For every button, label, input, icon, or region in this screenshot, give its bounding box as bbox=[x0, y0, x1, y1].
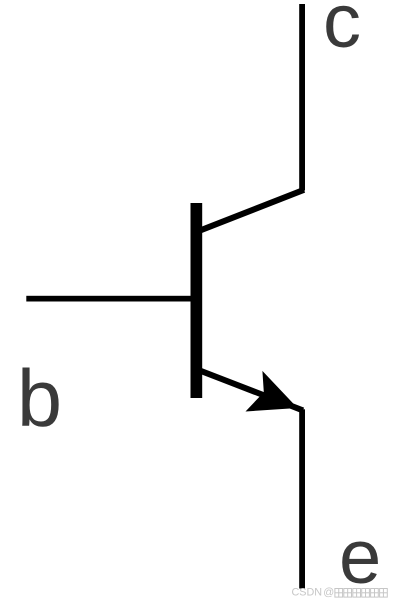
node label c (collector) bbox=[323, 0, 361, 60]
wire emitter diagonal bbox=[201, 371, 304, 411]
wire collector diagonal bbox=[201, 190, 305, 231]
watermark CJK glyph blocks bbox=[335, 589, 387, 598]
node label e (emitter) bbox=[339, 520, 381, 596]
base bar bbox=[191, 203, 203, 398]
svg-text:@: @ bbox=[323, 586, 334, 598]
svg-text:CSDN: CSDN bbox=[292, 586, 323, 598]
wire emitter vertical bbox=[299, 409, 305, 588]
node label b (base) bbox=[17, 359, 62, 440]
wire collector vertical bbox=[299, 4, 305, 191]
wire base horizontal bbox=[26, 296, 202, 302]
emitter arrowhead bbox=[246, 371, 298, 412]
watermark CSDN bbox=[292, 586, 335, 598]
